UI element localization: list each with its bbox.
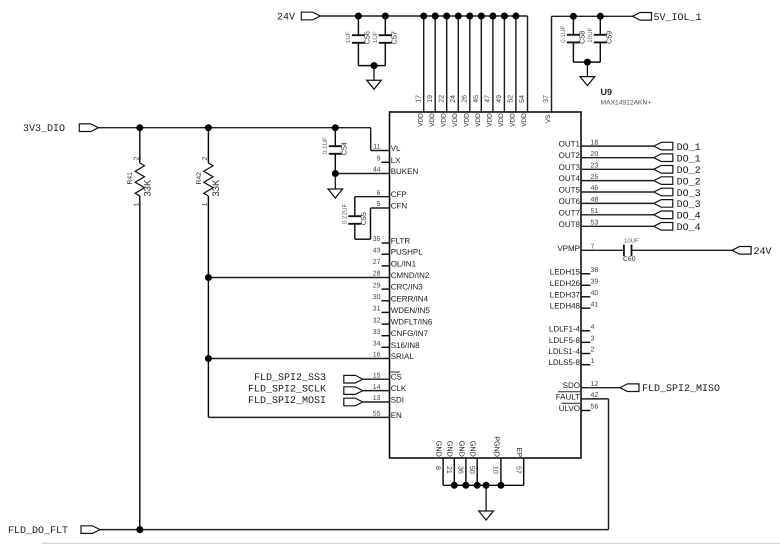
svg-text:C58: C58 xyxy=(577,31,586,44)
svg-text:CS: CS xyxy=(391,373,402,382)
svg-text:VDD: VDD xyxy=(521,113,528,127)
svg-text:22: 22 xyxy=(438,95,445,103)
svg-text:DO_1: DO_1 xyxy=(677,143,701,154)
wire FLD_DO_FLT net xyxy=(100,529,609,531)
pin GND 8 xyxy=(442,458,444,485)
wire OUT to DO_3 xyxy=(581,202,654,204)
svg-text:OL/IN1: OL/IN1 xyxy=(391,259,417,268)
wire OUT to DO_4 xyxy=(581,214,654,216)
svg-text:C56: C56 xyxy=(362,31,371,44)
capacitor C56 1UF xyxy=(352,34,365,36)
svg-text:EN: EN xyxy=(391,411,402,420)
junction 3V3_DIO / R41 xyxy=(136,124,143,131)
svg-text:48: 48 xyxy=(591,197,599,204)
svg-text:LDLF1-4: LDLF1-4 xyxy=(549,324,581,333)
junction 3V3_DIO / R42 xyxy=(205,124,212,131)
junction 3V3_DIO / C54 xyxy=(332,124,339,131)
wire FLD_SPI2_MOSI to pin xyxy=(363,401,390,403)
wire C59 bottom lead xyxy=(599,42,601,62)
svg-text:15: 15 xyxy=(373,372,381,379)
svg-text:25: 25 xyxy=(591,174,599,181)
svg-text:C55: C55 xyxy=(359,212,368,225)
svg-text:CFP: CFP xyxy=(391,190,407,199)
svg-text:39: 39 xyxy=(591,279,599,286)
svg-text:DO_4: DO_4 xyxy=(677,212,701,223)
wire VDD pin 22 drop from 24V rail xyxy=(446,16,448,112)
svg-text:C54: C54 xyxy=(339,142,348,155)
svg-text:C57: C57 xyxy=(389,31,398,44)
wire FLD_SPI2_SCLK to pin xyxy=(363,390,390,392)
node DO_2 connector xyxy=(654,177,673,185)
svg-text:GND: GND xyxy=(435,441,444,457)
wire R41 bottom to FLD_DO_FLT net xyxy=(139,196,141,530)
svg-text:28: 28 xyxy=(373,271,381,278)
svg-text:13: 13 xyxy=(373,395,381,402)
junction R42 / SRIAL xyxy=(205,355,212,362)
wire OUT to DO_3 xyxy=(581,191,654,193)
junction FLD_DO_FLT / R41 xyxy=(136,526,143,533)
node 24V right connector xyxy=(732,247,751,255)
svg-text:VDD: VDD xyxy=(475,113,482,127)
pin WDEN/IN5 31 xyxy=(382,311,390,313)
svg-text:33K: 33K xyxy=(143,179,154,197)
svg-text:51: 51 xyxy=(591,208,599,215)
junction 24V rail / VDD 45 xyxy=(478,13,485,20)
wire VDD pin 52 drop from 24V rail xyxy=(515,16,517,112)
node DO_2 connector xyxy=(654,166,673,174)
svg-text:34: 34 xyxy=(373,341,381,348)
node FLD_DO_FLT connector xyxy=(81,526,100,534)
wire VDD pin 26 drop from 24V rail xyxy=(469,16,471,112)
pin CRC/IN3 29 xyxy=(382,288,390,290)
pin GND 36 xyxy=(465,458,467,485)
svg-text:LDLF5-8: LDLF5-8 xyxy=(549,336,581,345)
junction C54 / BUKEN xyxy=(332,170,339,177)
wire C58-C59 ground tie xyxy=(573,61,600,63)
svg-text:9: 9 xyxy=(377,156,381,163)
svg-text:OUT4: OUT4 xyxy=(559,174,581,183)
node DO_4 connector xyxy=(654,223,673,231)
svg-text:17: 17 xyxy=(415,95,422,103)
wire EN to R42 xyxy=(208,416,389,418)
svg-text:CFN: CFN xyxy=(391,202,408,211)
svg-text:5: 5 xyxy=(377,201,381,208)
svg-text:CRC/IN3: CRC/IN3 xyxy=(391,283,424,292)
svg-text:DO_2: DO_2 xyxy=(677,177,701,188)
svg-text:41: 41 xyxy=(591,301,599,308)
pin LDLF5-8 3 xyxy=(581,341,590,343)
svg-text:46: 46 xyxy=(591,185,599,192)
svg-text:CLK: CLK xyxy=(391,384,407,393)
svg-text:42: 42 xyxy=(591,392,599,399)
svg-text:C59: C59 xyxy=(604,31,613,44)
junction ground bus xyxy=(451,482,458,489)
wire C60 to 24V connector xyxy=(632,249,733,251)
svg-text:R41: R41 xyxy=(127,172,134,185)
node 24V top-left power connector xyxy=(301,12,320,20)
svg-text:OUT8: OUT8 xyxy=(559,220,581,229)
wire VPMP to C60 xyxy=(581,249,624,251)
svg-text:DO_3: DO_3 xyxy=(677,200,701,211)
node DO_1 connector xyxy=(654,142,673,150)
svg-text:1UF: 1UF xyxy=(345,31,352,43)
svg-text:VL: VL xyxy=(391,144,401,153)
wire C54 top lead xyxy=(334,128,336,147)
svg-text:14: 14 xyxy=(373,384,381,391)
svg-text:52: 52 xyxy=(508,95,515,103)
wire C56 bottom lead xyxy=(357,43,359,66)
resistor R42 33K xyxy=(207,128,209,163)
svg-text:DO_3: DO_3 xyxy=(677,189,701,200)
wire 3V3_DIO corner to VL xyxy=(370,128,372,151)
svg-text:0.22UF: 0.22UF xyxy=(342,203,349,224)
pin PUSHPL 43 xyxy=(382,253,390,255)
wire C55 top lead xyxy=(354,197,356,217)
wire SDO to FLD_SPI2_MISO xyxy=(581,387,620,389)
svg-text:32: 32 xyxy=(373,317,381,324)
pin CNFG/IN7 33 xyxy=(382,335,390,337)
svg-text:2: 2 xyxy=(134,157,141,161)
wire frame border bottom xyxy=(42,542,780,544)
wire FAULT to FLD_DO_FLT net xyxy=(581,398,609,400)
svg-text:OUT6: OUT6 xyxy=(559,197,581,206)
svg-text:7: 7 xyxy=(591,244,595,251)
svg-text:2: 2 xyxy=(591,347,595,354)
pin LDLF1-4 4 xyxy=(581,330,590,332)
junction C58/C59 ground tie xyxy=(584,59,591,66)
svg-text:LEDH48: LEDH48 xyxy=(550,302,581,311)
ground below C58/C59 xyxy=(586,62,588,77)
junction 5V rail / C59 xyxy=(597,13,604,20)
svg-text:6: 6 xyxy=(377,190,381,197)
svg-text:OUT5: OUT5 xyxy=(559,186,581,195)
svg-text:23: 23 xyxy=(591,163,599,170)
svg-text:18: 18 xyxy=(591,139,599,146)
pin GND 50 xyxy=(476,458,478,485)
capacitor C58 0.1UF xyxy=(567,34,580,36)
svg-text:C60: C60 xyxy=(623,256,636,263)
junction 24V rail / VDD 24 xyxy=(455,13,462,20)
svg-text:LEDH26: LEDH26 xyxy=(550,279,581,288)
wire OUT to DO_1 xyxy=(581,157,654,159)
svg-text:VDD: VDD xyxy=(429,113,436,127)
svg-text:0.1UF: 0.1UF xyxy=(322,137,329,154)
node DO_4 connector xyxy=(654,211,673,219)
wire OUT to DO_4 xyxy=(581,225,654,227)
node DO_3 connector xyxy=(654,188,673,196)
junction 24V rail / C56 xyxy=(355,13,362,20)
wire R42 bottom vertical xyxy=(207,196,209,417)
svg-text:DO_2: DO_2 xyxy=(677,166,701,177)
pin FLTR 35 xyxy=(382,242,390,244)
svg-text:SRIAL: SRIAL xyxy=(391,352,415,361)
junction 24V rail / VDD 17 xyxy=(420,13,427,20)
pin LEDH26 39 xyxy=(581,284,590,286)
wire SRIAL to R42 xyxy=(208,358,389,360)
svg-text:10UF: 10UF xyxy=(624,238,639,245)
wire VDD pin 24 drop from 24V rail xyxy=(457,16,459,112)
pin S16/IN8 34 xyxy=(382,346,390,348)
svg-text:44: 44 xyxy=(373,167,381,174)
svg-text:53: 53 xyxy=(591,220,599,227)
pin LX 9 xyxy=(382,161,390,163)
pin ULVO 56 xyxy=(581,410,590,412)
wire 5V_IOL_1 rail xyxy=(552,15,633,17)
pin LDLS5-8 1 xyxy=(581,364,590,366)
svg-text:VDD: VDD xyxy=(487,113,494,127)
svg-text:BUKEN: BUKEN xyxy=(391,167,419,176)
svg-text:GND: GND xyxy=(469,441,478,457)
wire CMND/IN2 to R42 xyxy=(208,277,389,279)
wire OUT to DO_2 xyxy=(581,180,654,182)
svg-text:2: 2 xyxy=(202,157,209,161)
wire BUKEN pin 44 xyxy=(335,173,389,175)
svg-text:FLTR: FLTR xyxy=(391,237,411,246)
pin LEDH37 40 xyxy=(581,296,590,298)
svg-text:33: 33 xyxy=(373,329,381,336)
svg-text:VDD: VDD xyxy=(463,113,470,127)
svg-text:56: 56 xyxy=(591,404,599,411)
svg-text:SDI: SDI xyxy=(391,396,404,405)
svg-text:3: 3 xyxy=(591,336,595,343)
capacitor C57 1UF xyxy=(379,34,392,36)
svg-text:DO_4: DO_4 xyxy=(677,223,701,234)
wire CFN pin 5 xyxy=(371,207,390,209)
capacitor C59 10UF xyxy=(594,34,607,36)
pin WDFLT/IN6 32 xyxy=(382,323,390,325)
svg-text:38: 38 xyxy=(591,267,599,274)
svg-text:47: 47 xyxy=(485,95,492,103)
svg-text:19: 19 xyxy=(427,95,434,103)
pin PGND 10 xyxy=(500,458,502,485)
node DO_1 connector xyxy=(654,154,673,162)
svg-text:24V: 24V xyxy=(277,13,295,24)
svg-text:1: 1 xyxy=(591,358,595,365)
capacitor C60 10UF xyxy=(623,245,625,257)
svg-text:OUT7: OUT7 xyxy=(559,208,581,217)
svg-text:12: 12 xyxy=(591,381,599,388)
svg-text:5V_IOL_1: 5V_IOL_1 xyxy=(654,13,702,24)
svg-text:LDLS1-4: LDLS1-4 xyxy=(548,347,580,356)
junction ground bus xyxy=(474,482,481,489)
ground below C56/C57 xyxy=(373,66,375,81)
svg-text:31: 31 xyxy=(373,306,381,313)
wire C57 top lead xyxy=(384,16,386,35)
svg-text:PGND: PGND xyxy=(492,436,501,457)
junction 24V rail / C57 xyxy=(382,13,389,20)
svg-text:ULVO: ULVO xyxy=(559,404,580,413)
wire C54 bottom lead to BUKEN xyxy=(334,154,336,174)
ground below C54 xyxy=(334,174,336,190)
svg-text:26: 26 xyxy=(462,95,469,103)
ground below IC xyxy=(485,485,487,511)
junction 5V rail / C58 xyxy=(570,13,577,20)
wire VDD pin 47 drop from 24V rail xyxy=(492,16,494,112)
svg-text:VDD: VDD xyxy=(510,113,517,127)
junction 24V rail / VDD 22 xyxy=(443,13,450,20)
svg-text:0.1UF: 0.1UF xyxy=(560,26,567,43)
node DO_3 connector xyxy=(654,200,673,208)
svg-text:33K: 33K xyxy=(211,179,222,197)
junction 24V rail / VDD 49 xyxy=(501,13,508,20)
wire C56 top lead xyxy=(357,16,359,35)
svg-text:LEDH37: LEDH37 xyxy=(550,290,581,299)
wire OUT to DO_2 xyxy=(581,168,654,170)
wire OUT to DO_1 xyxy=(581,145,654,147)
svg-text:WDEN/IN5: WDEN/IN5 xyxy=(391,306,431,315)
pin LDLS1-4 2 xyxy=(581,353,590,355)
node 3V3_DIO connector xyxy=(79,124,98,132)
svg-text:GND: GND xyxy=(446,441,455,457)
svg-text:WDFLT/IN6: WDFLT/IN6 xyxy=(391,318,433,327)
svg-text:U9: U9 xyxy=(601,87,613,97)
svg-text:CERR/IN4: CERR/IN4 xyxy=(391,294,429,303)
wire C59 top lead xyxy=(599,16,601,35)
IC U9 MAX14912AKN+ body xyxy=(390,112,582,458)
svg-text:21: 21 xyxy=(445,466,452,474)
svg-text:36: 36 xyxy=(457,466,464,474)
svg-text:16: 16 xyxy=(373,352,381,359)
wire VDD pin 45 drop from 24V rail xyxy=(480,16,482,112)
svg-text:FLD_SPI2_MOSI: FLD_SPI2_MOSI xyxy=(248,396,326,407)
svg-text:GND: GND xyxy=(457,441,466,457)
svg-text:35: 35 xyxy=(373,236,381,243)
svg-text:VDD: VDD xyxy=(417,113,424,127)
junction ground bus xyxy=(497,482,504,489)
capacitor C54 0.1UF xyxy=(329,145,342,147)
svg-text:LEDH15: LEDH15 xyxy=(550,267,581,276)
junction 24V rail / VDD 19 xyxy=(432,13,439,20)
svg-text:MAX14912AKN+: MAX14912AKN+ xyxy=(601,100,652,107)
svg-text:43: 43 xyxy=(373,247,381,254)
junction ground bus xyxy=(462,482,469,489)
svg-text:VDD: VDD xyxy=(452,113,459,127)
svg-text:OUT1: OUT1 xyxy=(559,140,581,149)
junction 24V rail / VDD 47 xyxy=(489,13,496,20)
wire 3V3_DIO rail xyxy=(98,127,370,129)
junction 24V rail / VDD 52 xyxy=(512,13,519,20)
wire VDD pin 17 drop from 24V rail xyxy=(423,16,425,112)
node FLD_SPI2_SCLK connector xyxy=(344,387,363,395)
svg-text:VPMP: VPMP xyxy=(557,244,580,253)
svg-text:DO_1: DO_1 xyxy=(677,155,701,166)
svg-text:40: 40 xyxy=(591,290,599,297)
svg-text:57: 57 xyxy=(515,466,522,474)
svg-text:20: 20 xyxy=(591,151,599,158)
svg-text:SDO: SDO xyxy=(563,381,580,390)
svg-text:37: 37 xyxy=(543,95,550,103)
pin LEDH15 38 xyxy=(581,273,590,275)
wire C58 top lead xyxy=(572,16,574,35)
svg-text:24: 24 xyxy=(450,95,457,103)
svg-text:LDLS5-8: LDLS5-8 xyxy=(548,358,580,367)
svg-text:PUSHPL: PUSHPL xyxy=(391,248,424,257)
svg-text:27: 27 xyxy=(373,259,381,266)
svg-text:R42: R42 xyxy=(196,172,203,185)
junction C56/C57 ground tie xyxy=(371,62,378,69)
svg-text:1UF: 1UF xyxy=(372,31,379,43)
svg-text:8: 8 xyxy=(434,466,441,470)
svg-text:VDD: VDD xyxy=(498,113,505,127)
svg-text:VDD: VDD xyxy=(440,113,447,127)
svg-text:29: 29 xyxy=(373,282,381,289)
svg-text:S16/IN8: S16/IN8 xyxy=(391,341,420,350)
svg-text:4: 4 xyxy=(591,324,595,331)
svg-text:FLD_SPI2_SCLK: FLD_SPI2_SCLK xyxy=(248,384,326,395)
wire C58 bottom lead xyxy=(572,42,574,62)
svg-text:CMND/IN2: CMND/IN2 xyxy=(391,271,430,280)
svg-text:45: 45 xyxy=(473,95,480,103)
wire FLD_SPI2_SS3 to pin xyxy=(363,378,390,380)
junction ground bus xyxy=(483,482,490,489)
wire C57 bottom lead xyxy=(384,43,386,66)
svg-text:11: 11 xyxy=(373,144,380,151)
node FLD_SPI2_SS3 connector xyxy=(344,375,363,383)
svg-text:55: 55 xyxy=(373,411,381,418)
svg-text:10: 10 xyxy=(492,466,499,474)
wire bottom ground bus xyxy=(443,484,524,486)
svg-text:EP: EP xyxy=(515,447,524,457)
capacitor C55 0.22UF xyxy=(348,215,361,217)
svg-text:3V3_DIO: 3V3_DIO xyxy=(23,124,65,135)
svg-text:OUT2: OUT2 xyxy=(559,151,581,160)
pin OL/IN1 27 xyxy=(382,265,390,267)
svg-text:LX: LX xyxy=(391,156,401,165)
junction R42 / CMND/IN2 xyxy=(205,274,212,281)
node FLD_SPI2_MISO connector xyxy=(620,384,639,392)
node FLD_SPI2_MOSI connector xyxy=(344,398,363,406)
pin LEDH48 41 xyxy=(581,307,590,309)
junction 24V rail / VDD 26 xyxy=(466,13,473,20)
svg-text:49: 49 xyxy=(496,95,503,103)
wire 24V rail corner down to VDD pin 54 xyxy=(527,16,529,112)
svg-text:30: 30 xyxy=(373,294,381,301)
pin CERR/IN4 30 xyxy=(382,300,390,302)
wire 24V rail xyxy=(320,15,527,17)
svg-text:CNFG/IN7: CNFG/IN7 xyxy=(391,329,429,338)
svg-text:FLD_SPI2_SS3: FLD_SPI2_SS3 xyxy=(254,373,326,384)
resistor R41 33K xyxy=(139,128,141,163)
wire VDD pin 49 drop from 24V rail xyxy=(503,16,505,112)
wire C56-C57 ground tie xyxy=(358,65,385,67)
svg-text:24V: 24V xyxy=(754,247,772,258)
wire VDD pin 19 drop from 24V rail xyxy=(434,16,436,112)
svg-text:FAULT: FAULT xyxy=(556,392,580,401)
wire CFP pin 6 xyxy=(355,196,390,198)
pin GND 21 xyxy=(453,458,455,485)
pin EP 57 xyxy=(523,458,525,485)
svg-text:10UF: 10UF xyxy=(587,27,594,43)
node 5V_IOL_1 power connector xyxy=(633,13,652,21)
svg-text:OUT3: OUT3 xyxy=(559,163,581,172)
svg-text:FLD_DO_FLT: FLD_DO_FLT xyxy=(8,526,68,537)
svg-text:FLD_SPI2_MISO: FLD_SPI2_MISO xyxy=(642,384,720,395)
svg-text:VS: VS xyxy=(545,114,552,123)
svg-text:54: 54 xyxy=(519,95,526,103)
wire VS pin 37 drop xyxy=(551,16,553,112)
svg-text:50: 50 xyxy=(468,466,475,474)
wire C55 bottom loop to CFN xyxy=(354,224,356,239)
